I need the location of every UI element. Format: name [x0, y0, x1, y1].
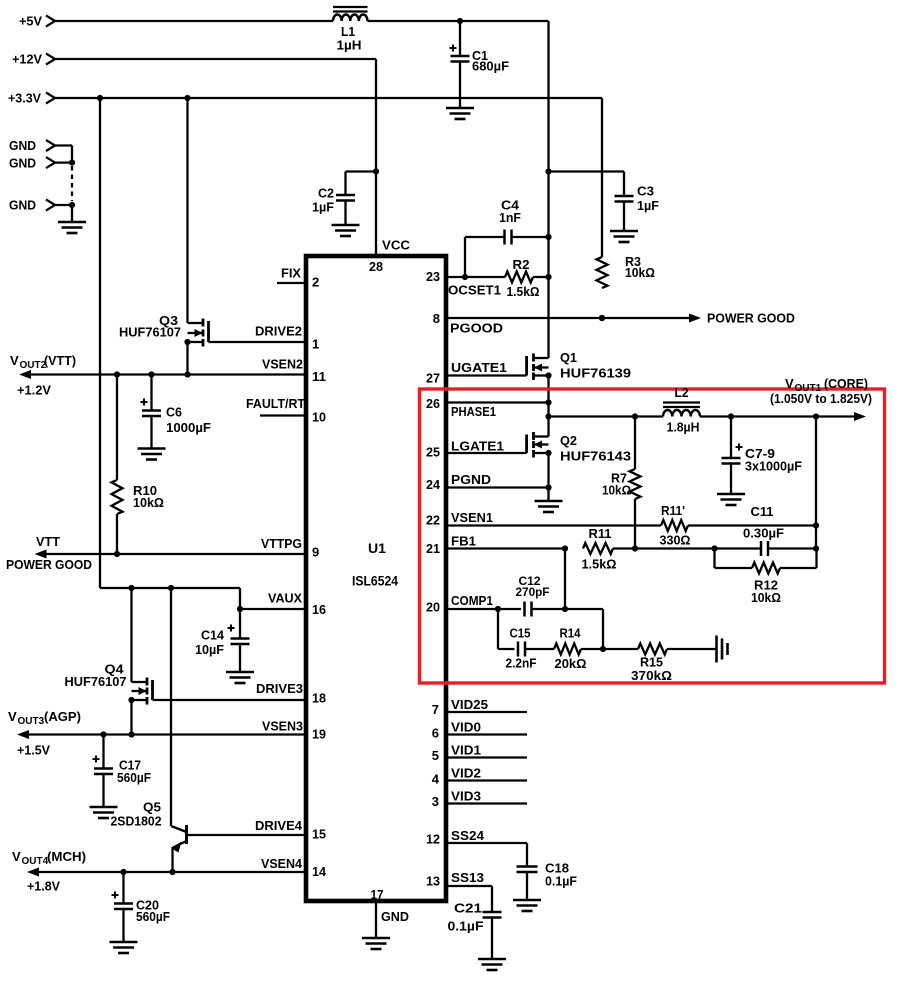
svg-text:24: 24	[426, 477, 441, 492]
svg-text:(1.050V to 1.825V): (1.050V to 1.825V)	[770, 391, 872, 406]
svg-text:370kΩ: 370kΩ	[631, 668, 672, 683]
svg-text:DRIVE2: DRIVE2	[255, 324, 302, 339]
svg-text:GND: GND	[9, 138, 36, 153]
svg-text:R14: R14	[560, 626, 582, 641]
svg-text:1µH: 1µH	[337, 38, 362, 53]
svg-text:16: 16	[312, 602, 326, 617]
svg-text:17: 17	[371, 887, 384, 902]
svg-text:V: V	[8, 709, 17, 724]
svg-text:10kΩ: 10kΩ	[751, 590, 781, 605]
svg-text:(MCH): (MCH)	[47, 849, 86, 864]
svg-text:1.5kΩ: 1.5kΩ	[582, 557, 617, 572]
svg-text:UGATE1: UGATE1	[451, 360, 507, 375]
svg-text:28: 28	[369, 259, 383, 274]
svg-text:25: 25	[426, 445, 440, 460]
svg-text:ISL6524: ISL6524	[352, 573, 398, 589]
svg-text:+12V: +12V	[12, 52, 42, 67]
svg-text:Q2: Q2	[560, 433, 577, 448]
svg-text:C15: C15	[510, 626, 531, 641]
svg-text:680µF: 680µF	[472, 58, 509, 73]
svg-text:R11: R11	[589, 526, 612, 541]
svg-text:SS24: SS24	[451, 828, 485, 843]
svg-text:23: 23	[426, 269, 440, 284]
svg-text:10kΩ: 10kΩ	[602, 483, 631, 498]
svg-text:(CORE): (CORE)	[824, 376, 868, 391]
svg-text:1.8µH: 1.8µH	[667, 420, 700, 435]
svg-text:VSEN3: VSEN3	[262, 719, 303, 734]
svg-text:VTTPG: VTTPG	[261, 536, 302, 551]
svg-text:+1.8V: +1.8V	[27, 879, 60, 894]
svg-text:6: 6	[432, 726, 439, 741]
svg-text:VSEN4: VSEN4	[261, 856, 303, 871]
svg-text:0.30µF: 0.30µF	[743, 526, 784, 541]
svg-text:4: 4	[432, 772, 440, 787]
svg-text:DRIVE3: DRIVE3	[256, 681, 303, 696]
svg-text:PHASE1: PHASE1	[451, 404, 496, 419]
svg-text:R11': R11'	[661, 503, 685, 518]
svg-text:V: V	[785, 376, 794, 391]
svg-text:(VTT): (VTT)	[44, 353, 76, 368]
svg-text:18: 18	[312, 691, 326, 706]
svg-text:10kΩ: 10kΩ	[625, 265, 655, 280]
svg-text:C3: C3	[637, 184, 654, 199]
svg-text:560µF: 560µF	[117, 770, 151, 785]
svg-text:10µF: 10µF	[195, 642, 224, 657]
svg-text:26: 26	[426, 396, 440, 411]
svg-text:PGOOD: PGOOD	[450, 321, 503, 336]
svg-text:7: 7	[432, 702, 439, 717]
svg-text:C2: C2	[318, 186, 334, 201]
svg-text:VID1: VID1	[451, 743, 481, 758]
svg-text:19: 19	[312, 727, 326, 742]
svg-text:27: 27	[426, 371, 440, 386]
svg-text:0.1µF: 0.1µF	[448, 919, 484, 934]
svg-text:C6: C6	[166, 405, 182, 420]
svg-text:(AGP): (AGP)	[44, 709, 81, 724]
svg-text:20kΩ: 20kΩ	[555, 656, 587, 671]
svg-text:POWER GOOD: POWER GOOD	[707, 311, 795, 326]
svg-text:VID0: VID0	[451, 720, 481, 735]
svg-text:VAUX: VAUX	[268, 591, 302, 606]
svg-text:SS13: SS13	[451, 870, 484, 885]
svg-text:1nF: 1nF	[499, 210, 521, 225]
svg-text:OCSET1: OCSET1	[448, 283, 501, 298]
svg-text:DRIVE4: DRIVE4	[255, 818, 303, 833]
svg-text:VID2: VID2	[451, 766, 481, 781]
svg-text:14: 14	[312, 864, 327, 879]
svg-text:15: 15	[312, 827, 326, 842]
svg-text:Q5: Q5	[143, 800, 161, 815]
svg-text:R2: R2	[513, 257, 530, 272]
svg-text:13: 13	[426, 874, 440, 889]
svg-text:V: V	[10, 353, 19, 368]
svg-text:VCC: VCC	[382, 238, 411, 253]
svg-text:22: 22	[426, 513, 440, 528]
svg-text:OUT4: OUT4	[22, 856, 49, 867]
svg-text:C14: C14	[201, 628, 225, 643]
svg-text:U1: U1	[368, 540, 386, 556]
svg-text:+1.2V: +1.2V	[17, 383, 51, 398]
svg-text:VID25: VID25	[451, 697, 488, 712]
svg-text:3: 3	[432, 794, 439, 809]
svg-text:+5V: +5V	[19, 14, 42, 29]
svg-text:HUF76139: HUF76139	[560, 366, 631, 381]
svg-text:11: 11	[312, 369, 326, 384]
svg-text:GND: GND	[381, 909, 409, 924]
svg-text:2.2nF: 2.2nF	[506, 656, 537, 671]
svg-text:3x1000µF: 3x1000µF	[745, 459, 802, 474]
svg-text:21: 21	[426, 541, 440, 556]
svg-text:COMP1: COMP1	[451, 593, 493, 608]
svg-text:5: 5	[432, 748, 439, 763]
svg-text:C21: C21	[454, 901, 482, 916]
svg-text:1: 1	[312, 337, 319, 352]
svg-text:POWER GOOD: POWER GOOD	[6, 557, 92, 572]
svg-text:FIX: FIX	[281, 266, 301, 281]
svg-text:VID3: VID3	[451, 789, 481, 804]
svg-text:10: 10	[312, 410, 326, 425]
svg-text:20: 20	[426, 600, 440, 615]
svg-text:9: 9	[312, 545, 319, 560]
svg-text:+1.5V: +1.5V	[17, 743, 50, 758]
svg-text:2: 2	[312, 275, 319, 290]
svg-text:Q1: Q1	[560, 350, 577, 365]
svg-text:VSEN1: VSEN1	[451, 510, 493, 525]
svg-text:HUF76107: HUF76107	[119, 325, 181, 340]
svg-text:OUT2: OUT2	[20, 360, 47, 371]
svg-text:VTT: VTT	[36, 534, 60, 549]
svg-text:HUF76143: HUF76143	[560, 449, 631, 464]
svg-text:FB1: FB1	[451, 534, 476, 549]
svg-text:8: 8	[433, 311, 440, 326]
svg-text:HUF76107: HUF76107	[65, 674, 127, 689]
svg-text:L2: L2	[675, 385, 689, 400]
svg-text:V: V	[12, 849, 21, 864]
svg-text:GND: GND	[9, 155, 36, 170]
svg-text:1000µF: 1000µF	[166, 420, 211, 435]
svg-text:LGATE1: LGATE1	[451, 439, 504, 454]
svg-text:0.1µF: 0.1µF	[545, 874, 577, 889]
svg-text:2SD1802: 2SD1802	[111, 814, 162, 829]
svg-text:270pF: 270pF	[516, 585, 550, 599]
svg-text:OUT3: OUT3	[18, 716, 45, 727]
svg-text:1.5kΩ: 1.5kΩ	[507, 284, 540, 299]
svg-text:12: 12	[426, 832, 440, 847]
svg-text:VSEN2: VSEN2	[262, 357, 303, 372]
svg-text:1µF: 1µF	[637, 198, 659, 213]
svg-text:1µF: 1µF	[312, 200, 334, 215]
svg-text:FAULT/RT: FAULT/RT	[246, 396, 305, 411]
svg-text:GND: GND	[9, 198, 36, 213]
svg-text:PGND: PGND	[451, 472, 491, 487]
svg-text:10kΩ: 10kΩ	[133, 495, 164, 510]
svg-text:C11: C11	[751, 504, 774, 519]
svg-text:+3.3V: +3.3V	[8, 91, 41, 106]
svg-text:560µF: 560µF	[136, 909, 170, 924]
svg-text:330Ω: 330Ω	[660, 533, 691, 548]
